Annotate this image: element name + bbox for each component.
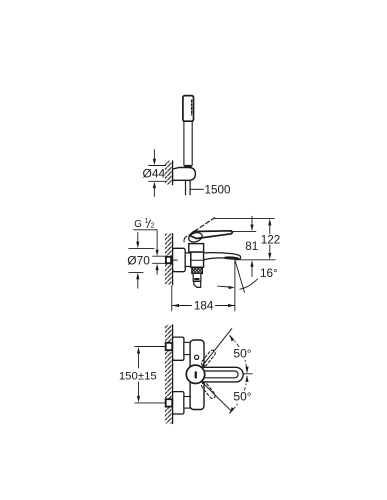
svg-text:122: 122: [261, 233, 281, 246]
svg-text:50°: 50°: [233, 346, 251, 360]
hose right edge: [189, 180, 191, 194]
dim Ø70 bottom arrow: [136, 273, 139, 280]
dashed raised lever: [195, 218, 215, 232]
upper escutcheon (front): [173, 337, 184, 360]
svg-text:Ø70: Ø70: [127, 253, 150, 267]
aerator dark tip: [224, 256, 239, 259]
dashed lever rotated down: [200, 381, 216, 399]
svg-text:Ø44: Ø44: [143, 167, 166, 181]
arc arrow upper at centerline: [245, 367, 248, 374]
16 deg arc leader with arrow: [218, 285, 229, 288]
dim 150+-15 extension lines: [135, 346, 166, 348]
centerline right of lever: [244, 373, 253, 375]
wall hatching (front view): [165, 325, 173, 424]
16 deg vertical reference from spout tip: [234, 260, 236, 311]
dim 150+-15 line with arrows: [138, 354, 140, 368]
upper supply bolt: [166, 343, 173, 350]
svg-text:81: 81: [245, 240, 258, 253]
lever (side view): [189, 231, 232, 239]
knob rear arc: [184, 236, 187, 242]
svg-text:184: 184: [194, 300, 214, 313]
lower rotation diagonal: [202, 382, 232, 411]
dim 184 line + arrows: [172, 305, 191, 307]
lower connector: [184, 397, 190, 409]
dim Ø70 extension lines: [129, 247, 154, 249]
svg-text:50°: 50°: [233, 390, 251, 404]
svg-text:1500: 1500: [205, 183, 232, 196]
faucet body (side): [191, 252, 204, 267]
dim 122 top arrow: [268, 219, 271, 226]
shower head body: [183, 96, 194, 122]
label G 1/2 leader: [134, 230, 158, 249]
arc arrow lower at centerline: [245, 375, 248, 382]
lower supply bolt: [166, 399, 173, 406]
16 deg slanted line: [235, 260, 245, 293]
union neck: [185, 253, 191, 267]
svg-text:G: G: [134, 219, 142, 230]
upper connector: [184, 342, 190, 354]
svg-text:1: 1: [145, 218, 149, 225]
knurled shower outlet band: [192, 268, 203, 274]
lower reference line (81 top): [232, 230, 256, 232]
faucet body (front): [190, 340, 204, 410]
G1/2 fitting square: [166, 257, 171, 263]
outlet dark slot: [194, 278, 199, 280]
lever inner slot: [202, 371, 238, 378]
outlet end piece with chamfer: [194, 281, 201, 287]
wall surface line (side view): [172, 234, 174, 285]
fitting pin line: [171, 259, 177, 261]
dim 81 bottom arrow: [250, 260, 253, 267]
cartridge cap: [189, 244, 204, 252]
outlet lower body: [193, 273, 201, 281]
dim Ø44 top arrow: [153, 150, 155, 159]
wall hatching (side view): [165, 234, 173, 285]
pivot dark bar: [195, 371, 197, 378]
dashed lever rotated up: [200, 349, 216, 367]
wall hatching (top view): [165, 161, 173, 185]
white mask under 50 deg labels: [233, 347, 253, 359]
dim 81 top arrow: [251, 216, 253, 224]
dim 184 left extension: [171, 285, 173, 310]
bottom reference line (spout outlet): [236, 259, 275, 261]
arc arrow at lower diagonal: [230, 407, 235, 414]
G1/2 dim arrows on fitting: [156, 250, 159, 256]
wall surface line (front view): [172, 325, 174, 424]
dim 122 bottom arrow: [269, 245, 271, 252]
dim Ø44 bottom arrow: [153, 182, 156, 189]
dim Ø44 bottom extension line: [149, 180, 166, 182]
upper reference line (122 top): [215, 217, 275, 219]
wall surface line (top view): [172, 161, 174, 185]
spout: [204, 253, 241, 260]
hose left edge: [185, 180, 187, 194]
50 deg arc upper: [230, 336, 248, 372]
body seam line: [191, 259, 204, 261]
dim Ø70 top arrow: [137, 233, 139, 242]
50 deg arc lower: [230, 377, 248, 413]
upper rotation diagonal: [202, 329, 232, 367]
dim Ø44 top extension line: [149, 165, 166, 167]
svg-text:2: 2: [151, 223, 155, 230]
escutcheon (side): [173, 248, 186, 271]
svg-text:150±15: 150±15: [119, 370, 157, 382]
holder bracket: [173, 168, 196, 181]
shaft dark cap: [184, 165, 192, 168]
shower handle shaft left edge: [183, 121, 185, 165]
shower head side shading ticks: [191, 100, 193, 115]
pivot circle: [186, 365, 204, 383]
lower escutcheon (front): [173, 392, 184, 414]
lever (front view): [194, 367, 243, 382]
shower handle shaft right edge: [191, 121, 193, 165]
arc arrow at upper diagonal: [230, 335, 235, 342]
svg-text:16°: 16°: [260, 267, 278, 280]
knob dome ellipse: [188, 231, 204, 243]
screw circle: [195, 355, 199, 359]
leader line for 1500: [191, 188, 204, 190]
